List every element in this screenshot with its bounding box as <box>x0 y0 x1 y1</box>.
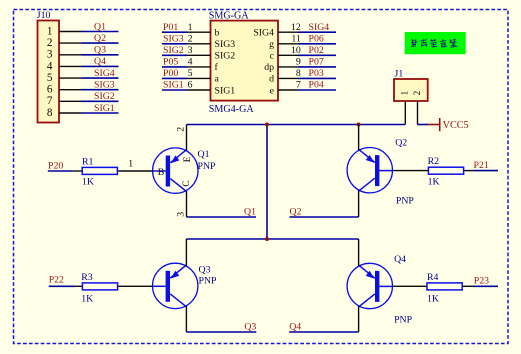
svg-text:P06: P06 <box>309 33 324 44</box>
SMG-GA left pin 4 (f) <box>187 56 219 73</box>
svg-text:Q4: Q4 <box>394 254 406 265</box>
Q4 collector pin <box>358 306 360 332</box>
svg-text:SIG3: SIG3 <box>94 80 115 91</box>
J10 pin 2 (Q2) <box>47 37 82 49</box>
svg-text:12: 12 <box>291 22 301 33</box>
svg-text:4: 4 <box>47 60 53 72</box>
IC U? SMG-GA (7-seg driver) <box>209 11 278 116</box>
resistor R2 1K <box>428 156 474 187</box>
SMG-GA left pin 2 (SIG3) <box>187 33 235 50</box>
svg-text:Q3: Q3 <box>199 264 211 275</box>
svg-text:1K: 1K <box>81 293 93 304</box>
svg-text:P03: P03 <box>309 68 324 79</box>
wire net SIG1 from J10 pin 8 <box>82 103 119 114</box>
Q2 collector pin <box>358 190 360 217</box>
svg-text:Q4: Q4 <box>289 322 301 333</box>
Q3 base pin <box>117 285 152 287</box>
wire net Q1 (collector stub) <box>187 206 257 217</box>
svg-text:a: a <box>215 74 220 85</box>
svg-text:J1: J1 <box>395 68 404 79</box>
svg-text:4: 4 <box>188 56 193 67</box>
svg-text:1: 1 <box>47 25 53 37</box>
J1 pin 2 <box>412 90 422 124</box>
transistor Q1 <box>153 127 216 217</box>
svg-text:C: C <box>182 180 192 186</box>
svg-text:J10: J10 <box>37 10 51 21</box>
transistor Q3 <box>153 263 218 308</box>
svg-text:1: 1 <box>188 22 193 33</box>
connector J1 <box>394 68 428 101</box>
wire vertical feed <box>266 125 268 240</box>
svg-text:P20: P20 <box>48 161 63 172</box>
svg-text:1: 1 <box>400 90 410 95</box>
Q4 emitter pin <box>358 239 360 266</box>
svg-text:11: 11 <box>291 33 301 44</box>
svg-text:B: B <box>158 167 165 178</box>
wire net P00 to SMG-GA pin 5 <box>162 68 187 79</box>
svg-text:b: b <box>215 28 220 39</box>
svg-text:c: c <box>270 51 275 62</box>
wire net P07 from SMG-GA pin 9 <box>298 56 336 67</box>
svg-text:6: 6 <box>47 84 53 96</box>
svg-text:1: 1 <box>128 159 133 170</box>
SMG-GA left pin 1 (b) <box>187 22 220 39</box>
SMG-GA right pin 12 (SIG4) <box>253 22 301 39</box>
SMG-GA right pin 8 (d) <box>269 68 301 85</box>
wire net P05 to SMG-GA pin 4 <box>162 56 187 67</box>
SMG-GA left pin 5 (a) <box>187 68 220 85</box>
svg-text:P07: P07 <box>309 56 324 67</box>
transistor Q4 <box>347 254 413 325</box>
svg-text:7: 7 <box>296 80 301 91</box>
svg-text:SIG3: SIG3 <box>215 39 236 50</box>
svg-text:7: 7 <box>47 95 53 107</box>
SMG-GA right pin 7 (e) <box>270 80 301 97</box>
svg-text:d: d <box>269 74 274 85</box>
svg-text:3: 3 <box>176 212 187 217</box>
J10 pin 3 (Q3) <box>47 49 82 61</box>
svg-text:P01: P01 <box>163 22 178 33</box>
svg-text:PNP: PNP <box>396 195 415 206</box>
svg-text:P02: P02 <box>309 45 324 56</box>
wire net Q1 from J10 pin 1 <box>82 21 119 32</box>
svg-text:PNP: PNP <box>394 314 413 325</box>
J10 pin 4 (Q4) <box>47 60 82 72</box>
svg-text:SIG1: SIG1 <box>94 103 115 114</box>
svg-text:10: 10 <box>291 45 301 56</box>
svg-text:1K: 1K <box>428 176 440 187</box>
Q4 base pin <box>393 285 428 287</box>
svg-text:Q3: Q3 <box>94 45 106 56</box>
svg-text:PNP: PNP <box>199 276 218 287</box>
svg-text:P21: P21 <box>474 160 489 171</box>
Q2 base pin <box>393 170 429 172</box>
J1 pin 1 <box>400 90 410 124</box>
SMG-GA right pin 10 (c) <box>270 45 301 62</box>
resistor R4 1K <box>427 272 473 304</box>
svg-text:R2: R2 <box>428 156 440 167</box>
wire net SIG3 to SMG-GA pin 2 <box>162 33 187 44</box>
J10 pin 6 (SIG3) <box>47 84 82 96</box>
power symbol VCC5 <box>428 118 469 131</box>
port P20 <box>48 161 73 172</box>
J10 pin 7 (SIG2) <box>47 95 82 107</box>
wire mid rail (Q3/Q4 emitters) <box>186 238 358 240</box>
junction mid <box>265 237 269 241</box>
Q2 emitter pin <box>358 125 360 151</box>
wire net SIG1 to SMG-GA pin 6 <box>162 80 187 91</box>
svg-text:SIG3: SIG3 <box>163 33 184 44</box>
Q1 base pin 1 <box>118 159 153 171</box>
svg-text:SMG4-GA: SMG4-GA <box>209 104 255 115</box>
wire net P06 from SMG-GA pin 11 <box>298 33 336 44</box>
J10 pin 1 (Q1) <box>47 25 82 37</box>
svg-text:1K: 1K <box>427 293 439 304</box>
svg-text:P23: P23 <box>474 276 489 287</box>
svg-text:Q2: Q2 <box>395 137 407 148</box>
svg-text:2: 2 <box>175 127 186 132</box>
J10 pin 8 (SIG1) <box>47 107 82 119</box>
resistor R1 1K <box>72 156 117 187</box>
svg-text:SIG1: SIG1 <box>215 85 236 96</box>
svg-text:Q1: Q1 <box>244 206 256 217</box>
svg-text:P22: P22 <box>49 274 64 285</box>
transistor Q2 <box>347 137 414 206</box>
svg-text:8: 8 <box>47 107 53 119</box>
svg-text:Q3: Q3 <box>244 322 256 333</box>
svg-text:e: e <box>270 85 275 96</box>
wire net P01 to SMG-GA pin 1 <box>162 22 187 33</box>
svg-text:R4: R4 <box>427 272 439 283</box>
wire net Q4 (collector stub) <box>289 322 358 333</box>
Q3 emitter pin <box>185 239 187 266</box>
wire net SIG2 to SMG-GA pin 3 <box>162 45 187 56</box>
svg-text:SIG4: SIG4 <box>309 22 330 33</box>
svg-text:SIG4: SIG4 <box>94 68 115 79</box>
wire net SIG4 from J10 pin 5 <box>82 68 119 79</box>
port P22 <box>49 274 75 286</box>
svg-text:R3: R3 <box>81 272 93 283</box>
svg-text:8: 8 <box>296 68 301 79</box>
svg-text:SIG2: SIG2 <box>163 45 184 56</box>
wire net SIG2 from J10 pin 7 <box>82 91 119 102</box>
svg-text:3: 3 <box>47 49 53 61</box>
wire net Q3 from J10 pin 3 <box>82 45 119 56</box>
svg-text:SIG4: SIG4 <box>253 28 274 39</box>
Q1 collector pin 3 <box>186 191 188 217</box>
svg-text:P00: P00 <box>163 68 178 79</box>
svg-text:P04: P04 <box>309 80 324 91</box>
port P23 <box>473 276 498 287</box>
svg-text:Q1: Q1 <box>94 21 106 32</box>
svg-text:Q2: Q2 <box>290 206 302 217</box>
svg-text:Q2: Q2 <box>94 33 106 44</box>
svg-text:9: 9 <box>296 56 301 67</box>
svg-text:SIG2: SIG2 <box>215 51 236 62</box>
svg-text:1K: 1K <box>82 177 94 188</box>
svg-text:VCC5: VCC5 <box>443 120 469 131</box>
svg-text:P05: P05 <box>163 56 178 67</box>
wire net P02 from SMG-GA pin 10 <box>298 45 336 56</box>
wire net P04 from SMG-GA pin 7 <box>298 80 336 91</box>
wire net Q3 (collector stub) <box>186 322 256 333</box>
svg-text:dp: dp <box>264 62 274 73</box>
svg-text:5: 5 <box>188 68 193 79</box>
svg-text:2: 2 <box>47 37 53 49</box>
wire net Q2 (collector stub) <box>290 206 359 217</box>
port P21 <box>473 160 498 171</box>
wire net Q2 from J10 pin 2 <box>82 33 119 44</box>
svg-text:6: 6 <box>188 80 193 91</box>
connector J10 <box>37 10 59 123</box>
J10 pin 5 (SIG4) <box>47 72 82 84</box>
Q3 collector pin <box>185 306 187 332</box>
svg-text:SIG1: SIG1 <box>163 80 184 91</box>
wire net P03 from SMG-GA pin 8 <box>298 68 336 79</box>
SMG-GA left pin 6 (SIG1) <box>187 80 235 97</box>
SMG-GA left pin 3 (SIG2) <box>187 45 235 62</box>
wire top rail (emitters / J1 pin1) <box>187 124 406 126</box>
junction top-left <box>265 123 269 127</box>
SMG-GA right pin 11 (g) <box>269 33 301 50</box>
svg-text:R1: R1 <box>82 156 94 167</box>
svg-text:Q1: Q1 <box>198 149 210 160</box>
svg-text:SIG2: SIG2 <box>94 91 115 102</box>
wire net Q4 from J10 pin 4 <box>82 56 119 67</box>
svg-text:Q4: Q4 <box>94 56 106 67</box>
svg-text:E: E <box>183 156 193 162</box>
Q1 emitter pin 2 <box>186 125 188 151</box>
svg-text:g: g <box>269 39 274 50</box>
wire net SIG3 from J10 pin 6 <box>82 80 119 91</box>
resistor R3 1K <box>75 272 118 304</box>
svg-text:3: 3 <box>188 45 193 56</box>
wire net SIG4 from SMG-GA pin 12 <box>298 22 336 33</box>
wire J1 pin2 to VCC5 <box>418 124 429 126</box>
svg-text:2: 2 <box>412 90 422 95</box>
svg-text:2: 2 <box>188 33 193 44</box>
svg-text:PNP: PNP <box>198 161 217 172</box>
junction top-right <box>357 123 361 127</box>
SMG-GA right pin 9 (dp) <box>264 56 301 73</box>
svg-text:5: 5 <box>47 72 53 84</box>
title box 数码管电路 (digit tube circuit) <box>405 32 466 54</box>
